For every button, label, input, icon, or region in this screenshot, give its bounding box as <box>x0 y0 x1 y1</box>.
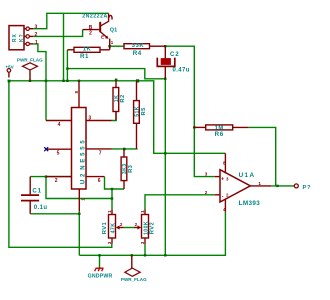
svg-text:2: 2 <box>35 32 38 38</box>
svg-text:1: 1 <box>140 210 145 213</box>
svg-text:1: 1 <box>258 181 261 186</box>
svg-text:RV2: RV2 <box>150 222 156 234</box>
op-amp U1A LM393 <box>205 153 272 212</box>
svg-text:R1: R1 <box>80 53 89 60</box>
U2 pin 6 <box>86 177 105 185</box>
wire R1 left drop to rail <box>66 50 68 81</box>
svg-text:2: 2 <box>135 222 138 227</box>
svg-text:2: 2 <box>120 222 123 227</box>
wire +5V left drop to bottom <box>9 81 112 248</box>
PWR_FLAG top-left <box>17 58 43 81</box>
U2 pin 7 <box>86 149 112 157</box>
svg-text:P?: P? <box>303 185 312 191</box>
wire RV2 top to comparator - input <box>145 195 215 210</box>
wire connector pin1 to U2 pin4 <box>33 44 46 121</box>
svg-text:RV1: RV1 <box>102 221 108 234</box>
svg-text:2: 2 <box>205 190 208 195</box>
wire U2 pin7 to R5 bottom <box>112 148 138 150</box>
svg-text:3: 3 <box>205 172 208 177</box>
svg-text:RX: RX <box>12 33 18 42</box>
resistor R1 <box>67 46 109 60</box>
U2 pin 4 <box>46 121 72 128</box>
svg-text:R6: R6 <box>215 131 224 138</box>
connector pin 1 <box>24 40 38 46</box>
U2 pin 2 <box>46 177 72 185</box>
U2 pin 3 <box>86 116 112 122</box>
capacitor C2 0.47u <box>157 46 190 79</box>
resistor R6 <box>193 125 249 138</box>
wire RV2 bottom to ground rail <box>144 244 146 255</box>
connector pin 2 <box>24 32 38 38</box>
wire C2 bottom to ground rail vertical <box>164 79 166 256</box>
IC U2 NE555 <box>72 108 87 190</box>
resistor R2 <box>113 81 126 121</box>
wire RV1 wiper to RV2 wiper <box>124 227 134 229</box>
svg-text:2N2222A: 2N2222A <box>82 13 107 19</box>
svg-text:GNDPWR: GNDPWR <box>88 274 113 280</box>
svg-text:3: 3 <box>88 116 91 122</box>
wire R4 to comparator + input <box>165 46 214 176</box>
wire comparator output to port <box>271 185 294 187</box>
svg-text:2: 2 <box>55 178 58 184</box>
wire GNDPWR stem <box>99 255 101 268</box>
svg-text:K?: K? <box>19 33 25 42</box>
wire U2 pin6 jog to R3 bottom <box>105 177 125 189</box>
resistor R5 <box>134 81 147 149</box>
svg-text:R4: R4 <box>133 50 142 57</box>
wire U2 pin1 down to ground rail <box>78 211 80 255</box>
svg-text:1: 1 <box>107 210 112 213</box>
svg-text:C2: C2 <box>170 52 180 58</box>
svg-text:PWR_FLAG: PWR_FLAG <box>17 58 43 63</box>
capacitor C1 0.1u <box>21 177 47 214</box>
svg-text:3: 3 <box>107 241 112 244</box>
wire C2 bottom net <box>67 69 165 79</box>
svg-text:33K: 33K <box>132 43 145 49</box>
svg-text:7: 7 <box>99 151 102 157</box>
U2 pin 8 <box>74 81 79 108</box>
wire U2 pin2 net to timing node <box>30 177 112 199</box>
svg-text:0.47u: 0.47u <box>173 68 190 74</box>
potentiometer RV1 47K <box>102 210 124 245</box>
svg-text:8: 8 <box>74 91 79 94</box>
svg-text:R5: R5 <box>141 107 147 116</box>
wire +5V rail <box>9 81 226 154</box>
svg-text:R3: R3 <box>128 164 134 173</box>
connector K? RX <box>9 26 25 50</box>
svg-text:U2: U2 <box>81 171 87 184</box>
svg-text:3: 3 <box>140 241 145 244</box>
+5V power symbol <box>5 65 14 78</box>
svg-text:5: 5 <box>57 151 60 157</box>
wire C1 bottom to U2 pin1 net <box>30 213 79 215</box>
svg-text:+: + <box>221 176 224 182</box>
svg-text:3: 3 <box>35 24 38 30</box>
U2 pin 5 with no-connect <box>44 147 71 156</box>
svg-text:47K: 47K <box>110 223 116 234</box>
wire connector pin2 to Q1 base <box>33 30 82 37</box>
svg-text:E: E <box>101 34 104 39</box>
PWR_FLAG bottom <box>121 255 147 282</box>
svg-text:C1: C1 <box>32 189 42 195</box>
resistor R3 <box>121 149 134 189</box>
wire top from pin3 corner to Q1 collector <box>33 13 108 28</box>
svg-text:Q1: Q1 <box>110 27 117 33</box>
resistor R4 <box>124 43 165 57</box>
svg-text:NE555: NE555 <box>81 137 87 169</box>
svg-text:PWR_FLAG: PWR_FLAG <box>121 277 147 282</box>
wire R6 right to output <box>249 127 276 185</box>
transistor Q1 2N2222A <box>82 13 117 50</box>
wire timing node vertical to RV1 top <box>111 189 113 210</box>
svg-text:4: 4 <box>58 122 61 128</box>
svg-text:1: 1 <box>35 40 38 46</box>
port P? <box>294 184 311 191</box>
wire U2 pin3 to R2 bottom <box>112 112 117 121</box>
wire vertical collector net to +5V rail <box>63 13 65 81</box>
svg-text:U1A: U1A <box>239 172 256 179</box>
svg-text:2: 2 <box>89 31 92 37</box>
GNDPWR ground symbol <box>88 268 113 279</box>
svg-text:-: - <box>222 193 224 199</box>
potentiometer RV2 100K <box>134 210 156 245</box>
wire emitter node to R4 <box>110 45 124 47</box>
svg-text:51K: 51K <box>135 106 141 117</box>
svg-text:3K3: 3K3 <box>122 163 128 174</box>
svg-text:100K: 100K <box>143 221 149 235</box>
wire ground rail bottom <box>79 212 225 256</box>
svg-text:1K: 1K <box>83 46 92 52</box>
svg-text:1: 1 <box>81 198 86 201</box>
svg-text:LM393: LM393 <box>239 200 261 207</box>
svg-text:R2: R2 <box>120 94 126 102</box>
connector pin 3 <box>24 24 38 30</box>
U2 pin 1 <box>79 189 85 211</box>
svg-text:6: 6 <box>98 178 101 184</box>
svg-text:0.1u: 0.1u <box>34 205 48 211</box>
